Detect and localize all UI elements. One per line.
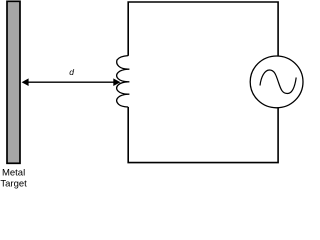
svg-text:d: d [69, 67, 74, 77]
svg-text:Metal: Metal [2, 167, 25, 178]
svg-text:Target: Target [0, 178, 27, 189]
